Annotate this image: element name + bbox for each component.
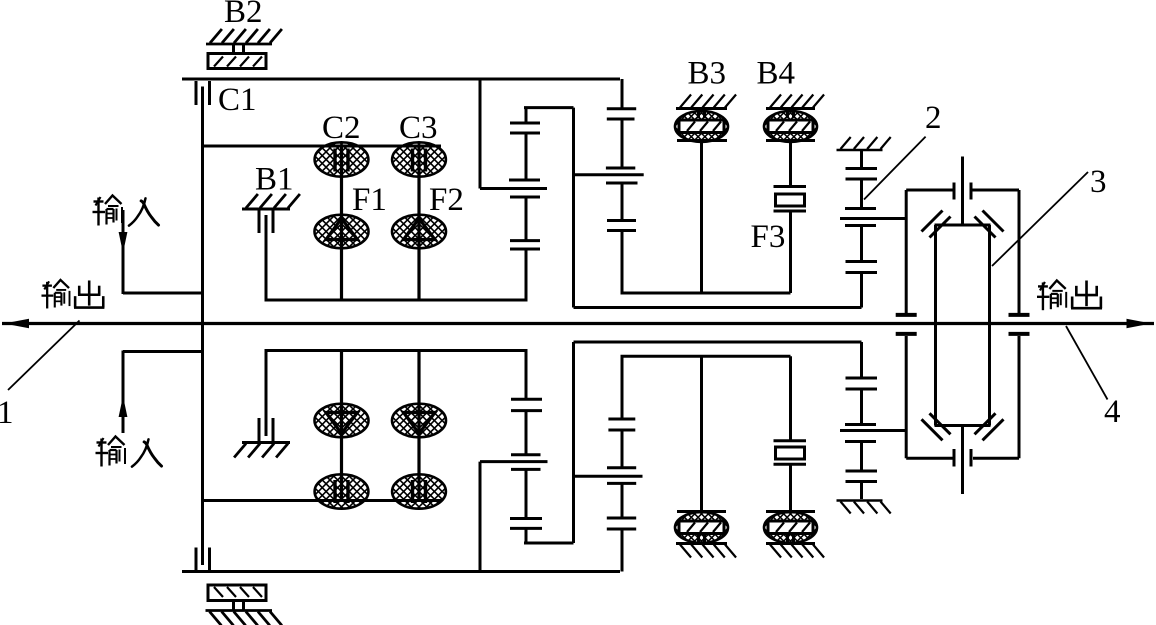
svg-text:2: 2 bbox=[925, 100, 942, 136]
svg-text:C3: C3 bbox=[399, 110, 438, 146]
svg-text:B1: B1 bbox=[255, 162, 294, 198]
svg-text:1: 1 bbox=[0, 395, 14, 431]
svg-text:B4: B4 bbox=[757, 56, 796, 92]
svg-text:F1: F1 bbox=[352, 182, 387, 218]
svg-text:B2: B2 bbox=[224, 0, 263, 30]
svg-text:F3: F3 bbox=[751, 219, 786, 255]
svg-text:3: 3 bbox=[1090, 164, 1107, 200]
svg-text:C2: C2 bbox=[322, 110, 361, 146]
svg-text:B3: B3 bbox=[688, 56, 727, 92]
svg-text:4: 4 bbox=[1104, 394, 1121, 430]
svg-text:F2: F2 bbox=[429, 182, 464, 218]
svg-text:C1: C1 bbox=[218, 82, 257, 118]
